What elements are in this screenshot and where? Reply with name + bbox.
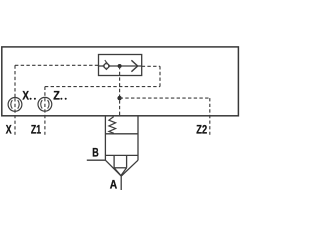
wire: port A line <box>120 176 122 190</box>
node N1 (junction in U1) <box>118 64 122 68</box>
check valve / orifice element U1 box <box>99 55 142 76</box>
wire: port B line <box>87 159 106 161</box>
poppet cone <box>114 168 127 176</box>
wire: dashed X riser upper <box>14 65 16 97</box>
svg-text:B: B <box>92 146 99 160</box>
wire: dashed Z riser upper <box>44 87 46 98</box>
orifice plug X (circle) <box>8 98 22 112</box>
svg-text:X: X <box>22 89 29 103</box>
wire: dashed pilot riser to valve <box>119 66 121 116</box>
poppet stem verticals <box>114 155 127 167</box>
wire: dashed Z vertical step <box>159 66 161 86</box>
check valve V1 (diamond with seat ball) <box>103 62 110 69</box>
flow arrow chevron <box>131 60 137 71</box>
wire: dashed link to U1 right side <box>142 65 160 67</box>
svg-text:X: X <box>6 122 12 136</box>
seat line <box>105 154 138 156</box>
orifice arcs in X plug <box>11 100 19 109</box>
wire: dashed Z riser through circle and below to port <box>44 98 46 135</box>
spring tick on V1 <box>105 60 107 63</box>
orifice arcs in Z plug <box>41 100 49 109</box>
wire: dashed Z2 horizontal <box>120 97 210 99</box>
node N2 (pilot junction) <box>117 96 121 100</box>
spring chamber line <box>105 133 138 135</box>
enclosure border (manifold outline) <box>2 47 239 116</box>
wire: dashed Z horizontal run <box>45 86 160 88</box>
svg-text:Z: Z <box>53 89 60 103</box>
wire: dashed X riser through circle and below to port <box>14 98 16 135</box>
cartridge valve body <box>105 116 138 160</box>
spring K1 <box>109 117 116 134</box>
seat V diagonals <box>105 160 138 176</box>
orifice plug Z (circle) <box>38 97 52 111</box>
wire: through line in U1 <box>99 65 142 67</box>
wire: dashed pilot X horizontal <box>15 64 99 66</box>
wire: dashed Z2 riser <box>209 98 211 135</box>
svg-text:Z2: Z2 <box>196 122 207 136</box>
svg-text:Z1: Z1 <box>31 122 41 136</box>
svg-text:A: A <box>110 178 118 192</box>
poppet top line <box>114 167 127 169</box>
